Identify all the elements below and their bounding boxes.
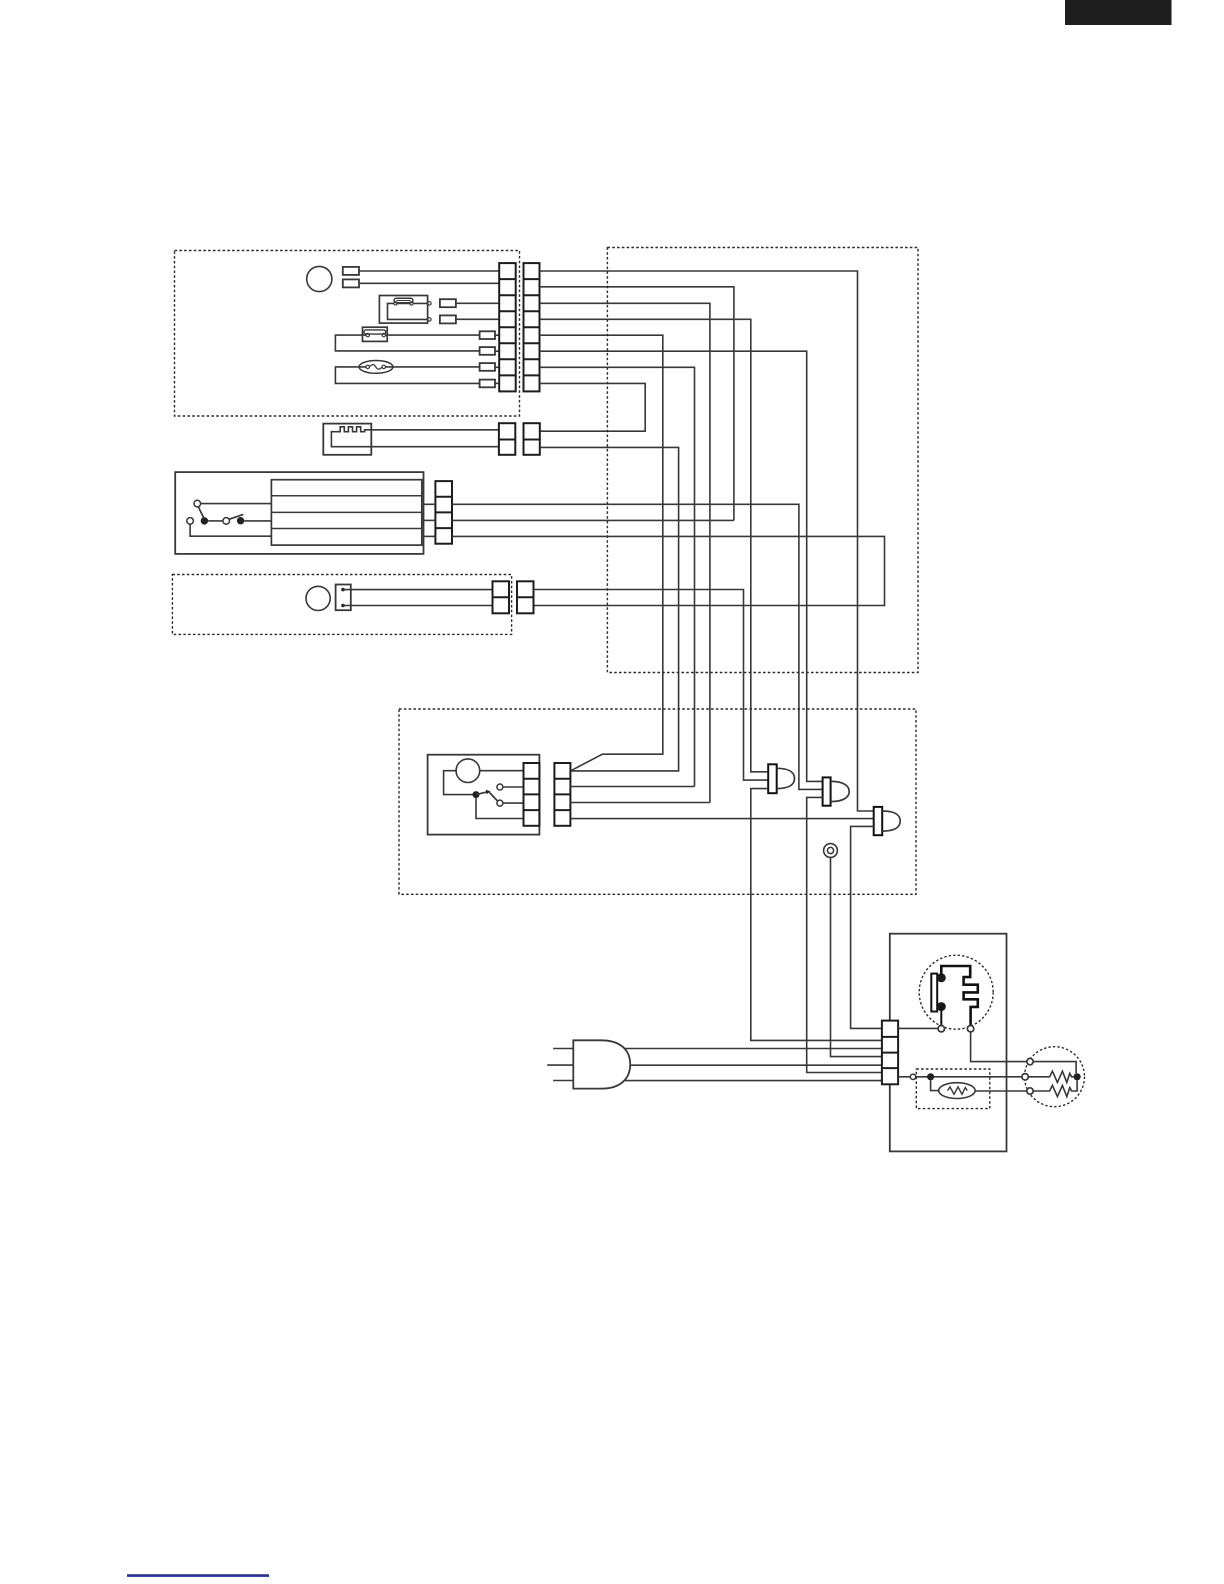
- cutout terminals: [366, 365, 369, 368]
- wire P6 to CN1-6: [495, 350, 499, 352]
- receptacle lower lead: [940, 1007, 942, 1026]
- terminal block TB: [882, 1021, 898, 1085]
- heating element comb: [331, 427, 499, 447]
- header black tab: [1065, 0, 1172, 25]
- thermostat TH1 box: [379, 296, 427, 324]
- heater element oval: [939, 1083, 975, 1099]
- footer blue rule: [127, 1574, 269, 1577]
- motor terminal bottom: [1027, 1088, 1033, 1094]
- buzzer BZ: [824, 844, 838, 858]
- lamp L3 bottom feed: [851, 826, 882, 1028]
- motor connector CN3: [435, 481, 452, 544]
- wire O1 to CN4-3: [503, 802, 524, 804]
- receptacle contact dots: [937, 973, 946, 982]
- heater dashed box: [916, 1069, 990, 1109]
- pump connector CN5 right: [517, 581, 534, 613]
- wire CN4-2 to W7: [570, 786, 694, 788]
- console switch lever: [476, 792, 487, 795]
- wire CN2-2 to console CN4-1: [540, 447, 679, 771]
- thermostat terminals: [394, 302, 397, 305]
- pin P5: [480, 331, 495, 339]
- heater connector CN2 left: [499, 423, 515, 455]
- console switch unit box: [428, 755, 540, 835]
- wire TB-1 to receptacle: [898, 1027, 938, 1029]
- wire P1 to CN1-1: [359, 270, 499, 272]
- wire W4 CN1-4 to lamp1 top: [540, 319, 769, 772]
- wire heater oval to motor bottom: [975, 1090, 1027, 1092]
- wire circle left loop to D3: [444, 771, 473, 795]
- wire block to CN3 row2: [424, 503, 436, 505]
- motor winding 1: [1028, 1071, 1073, 1082]
- wire WB CN3-3 to W2: [452, 519, 734, 521]
- wire P2 to CN1-2: [359, 282, 499, 284]
- motor winding 2: [1033, 1080, 1077, 1096]
- switch contact dot D1: [201, 517, 208, 524]
- heater assembly box: [323, 424, 371, 455]
- wire dot to heater oval: [931, 1080, 939, 1090]
- wire TB-4 to motor mid: [898, 1076, 1022, 1078]
- wire P8 to CN1-8: [495, 382, 499, 384]
- receptacle terminal circles: [938, 1026, 944, 1032]
- wire D2 to winding block: [244, 520, 271, 522]
- lamp L1 dome: [777, 768, 795, 788]
- drive motor dashed circle: [1025, 1047, 1085, 1107]
- lamp L3 dome: [882, 811, 900, 831]
- centrifugal switch contact S1: [194, 500, 201, 507]
- pin P7: [480, 363, 495, 371]
- wire F2 left loop to pin P8: [335, 367, 479, 384]
- wire pump T1 to CN5: [343, 589, 493, 591]
- lamp L1 bottom feed: [751, 789, 882, 1041]
- motor pin P2: [343, 279, 359, 287]
- wire P4 to CN1-4: [456, 318, 499, 320]
- wire W8 CN1-8 to heater CN2-1: [540, 383, 646, 431]
- power plug body: [573, 1040, 630, 1088]
- timer assembly dashed box: [175, 251, 520, 417]
- wire P3 to CN1-3: [456, 302, 499, 304]
- lamp L1 holder: [768, 764, 777, 793]
- thermostat pin P4: [440, 315, 456, 323]
- plug prongs: [547, 1049, 573, 1081]
- wire W3 CN1-3 to console CN4-3: [540, 303, 710, 802]
- wire W5 CN1-5 to console CN4-1 diagonal: [540, 335, 663, 771]
- power cord wires: [600, 1049, 882, 1081]
- thermostat inner wiring: [388, 303, 428, 319]
- wire P5 to CN1-5: [495, 334, 499, 336]
- switch contact dot D2: [237, 517, 244, 524]
- wire D1 to S3: [208, 520, 223, 522]
- receptacle dashed circle: [919, 955, 993, 1029]
- motor terminal top: [1027, 1058, 1033, 1064]
- wire block to CN3 row3: [424, 519, 436, 521]
- motor top internal wire: [1033, 1062, 1076, 1074]
- wire P7 to CN1-7: [495, 366, 499, 368]
- wire WA CN3-2 to lamp2 mid: [452, 504, 823, 789]
- wire F1 left loop to pin P6: [335, 335, 479, 351]
- motor junction dot: [1074, 1073, 1081, 1080]
- wire WD CN5-1 to lamp1 mid: [534, 590, 769, 781]
- pump terminal box: [336, 585, 351, 611]
- console dashed box: [399, 709, 916, 894]
- junction dot heater: [927, 1073, 934, 1080]
- inline terminal circle: [910, 1074, 915, 1079]
- wire circle to CN4-1: [480, 770, 524, 772]
- pin P6: [480, 347, 495, 355]
- console connector CN4 left: [524, 763, 540, 826]
- thermal cutout F2 oval: [359, 361, 393, 374]
- timer motor M circle: [307, 266, 332, 291]
- wire W1 CN1-1 to lamp3 top: [540, 271, 874, 811]
- power unit box: [890, 934, 1007, 1152]
- pump terminal dots: [341, 588, 345, 592]
- pin P8: [480, 380, 495, 388]
- receptacle blade: [941, 966, 978, 1026]
- lamp L2 holder: [823, 777, 831, 805]
- heater zigzag: [948, 1087, 968, 1094]
- connector CN1 left housing: [499, 263, 516, 391]
- motor winding block: [271, 480, 421, 545]
- wire D3 lower loop to CN4-4: [476, 798, 524, 818]
- switch lever S1: [198, 507, 204, 519]
- wire block to CN3 row4: [424, 535, 436, 537]
- wire F1 right to pin P5: [386, 334, 480, 336]
- lamp L3 holder: [874, 807, 883, 835]
- fuse terminals: [366, 333, 369, 336]
- console motor circle: [456, 759, 480, 783]
- thermostat bimetal bar: [394, 298, 413, 302]
- console contact O1: [497, 800, 503, 806]
- console connector CN4 right: [554, 763, 570, 826]
- switch contact S3: [223, 518, 230, 525]
- motor pin P1: [343, 267, 359, 275]
- wire pump T2 to CN5: [343, 605, 493, 607]
- lamp L2 dome: [831, 781, 850, 801]
- receptacle bar: [931, 974, 937, 1012]
- wire O2 to CN4-2: [503, 786, 524, 788]
- wire CN4-4 to lamp3 mid: [570, 818, 873, 820]
- connector CN1 right housing: [524, 263, 540, 391]
- wire CN4-3 to W3: [570, 802, 710, 804]
- pump assembly dashed box: [172, 575, 511, 635]
- wire buzzer to terminal block: [831, 857, 882, 1056]
- wire receptacle to motor top: [971, 1032, 1027, 1062]
- thermostat pin P3: [440, 299, 456, 307]
- lamp L2 bottom feed: [807, 797, 882, 1072]
- pump motor circle: [306, 586, 330, 610]
- wire F2 right to pin P7: [386, 366, 480, 368]
- big harness dashed box: [607, 248, 918, 673]
- switch lever S3: [229, 514, 243, 519]
- fuse bar: [364, 330, 386, 334]
- wire S2 lower loop: [190, 524, 271, 536]
- wire W6 CN1-6 to lamp2 top: [540, 351, 823, 781]
- pump connector CN5 left: [493, 581, 510, 613]
- heater connector CN2 right: [524, 423, 540, 455]
- main motor assembly box: [175, 472, 423, 554]
- console switch dot D3: [473, 791, 480, 798]
- wire WC CN3-4 to pump CN5-2: [452, 536, 885, 605]
- console contact O2: [497, 784, 503, 790]
- cutout wavy element: [369, 365, 382, 370]
- switch contact S2: [187, 518, 194, 525]
- wire W2 CN1-2 down junction: [540, 287, 734, 521]
- thermal fuse F1 box: [363, 327, 388, 341]
- wire W7 CN1-7 to console CN4-2: [540, 367, 695, 786]
- motor terminal mid: [1022, 1074, 1028, 1080]
- thermostat terminal bumps: [428, 302, 431, 305]
